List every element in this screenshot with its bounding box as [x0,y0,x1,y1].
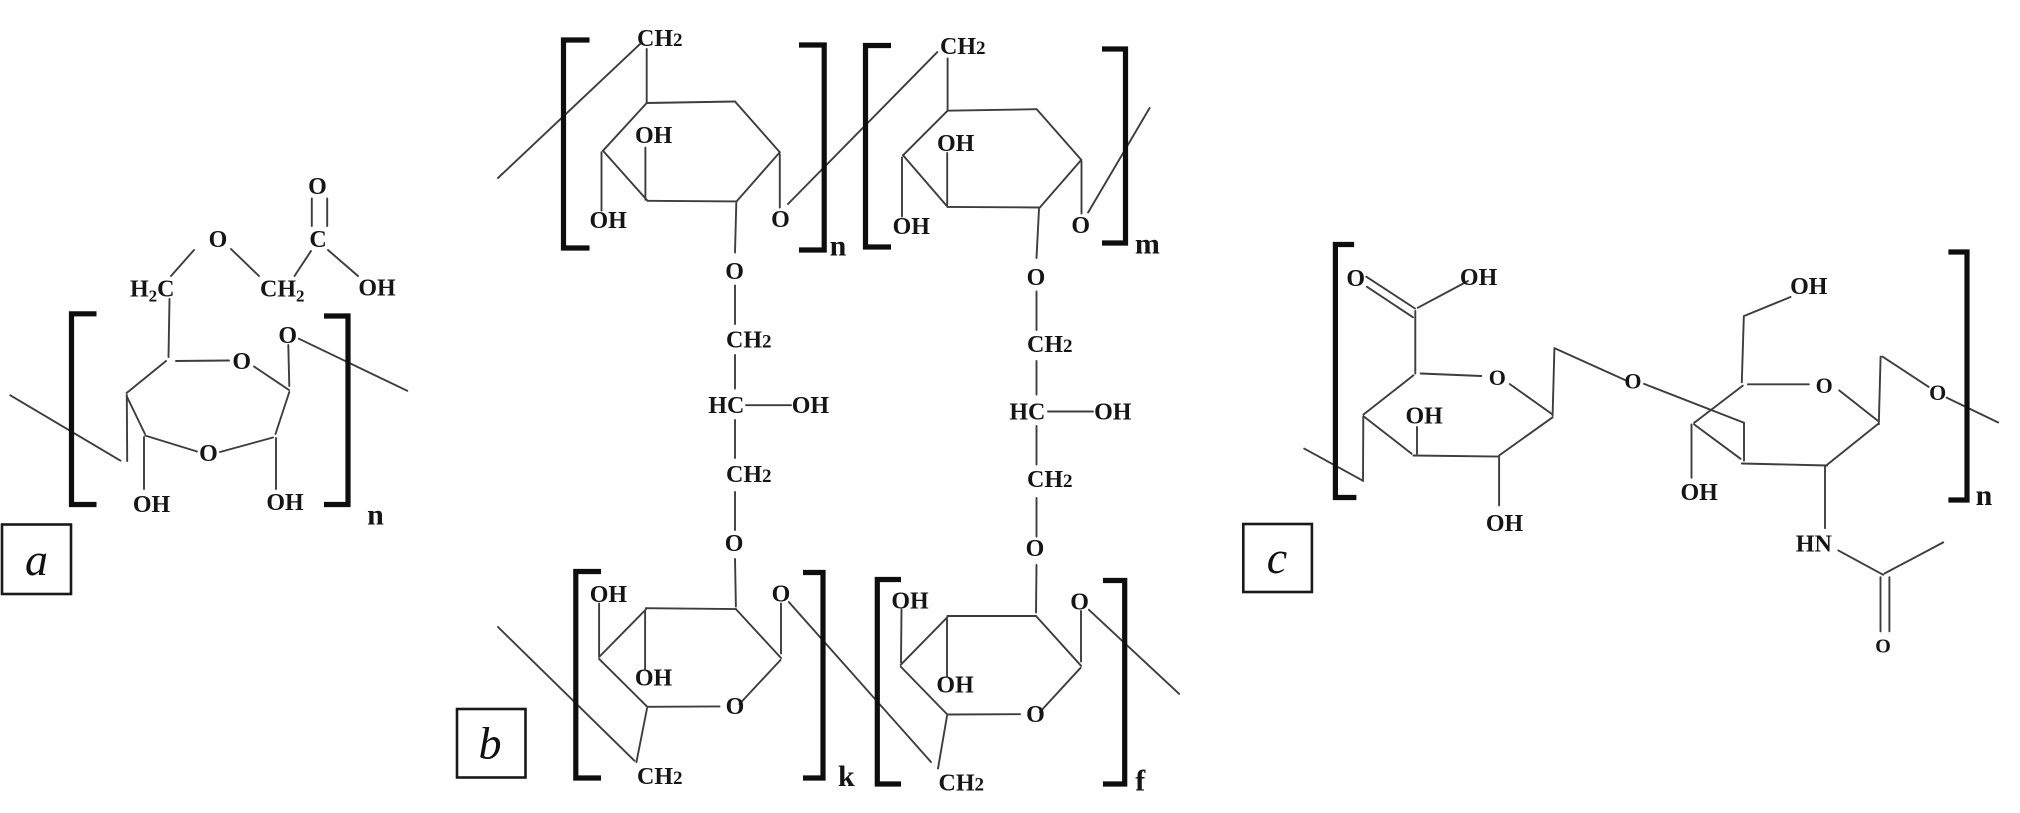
chain tail upper left [498,44,640,178]
bond C1-Oring [1081,162,1083,214]
svg-text:O: O [725,531,744,557]
ring cL edge C4-C5 [1364,375,1414,414]
bracket right f [1103,581,1125,785]
svg-text:k: k [838,760,855,793]
bond O-CH2 [1036,292,1038,331]
svg-text:OH: OH [891,589,929,615]
svg-text:OH: OH [1460,265,1498,291]
bracket left n [564,40,590,248]
svg-text:OH: OH [358,276,396,302]
bond innerOH-C3 [1416,427,1418,454]
bond O glyc-C1 [288,345,289,386]
svg-text:m: m [1135,228,1160,261]
chain tail left c [1304,449,1363,481]
svg-text:O: O [1071,213,1090,239]
svg-text:CH2: CH2 [1027,332,1073,358]
ring a edge C2-Obottom [220,438,273,453]
bond C-CH3 [1885,542,1944,573]
svg-text:O: O [771,207,790,233]
svg-text:n: n [1976,479,1993,512]
bond BL-CH2 [636,709,647,763]
svg-text:CH2: CH2 [637,26,683,52]
svg-text:CH2: CH2 [939,771,985,797]
ring cR edge C5-O [1748,383,1809,385]
svg-text:CH2: CH2 [726,462,772,488]
svg-text:OH: OH [1790,274,1828,300]
chain tail right [299,339,408,391]
ring k edge Oring-BL [647,705,719,707]
bracket right n [799,45,824,250]
svg-text:C: C [309,227,326,253]
glycosidic bond k-f [789,602,931,762]
svg-text:O: O [1875,636,1891,658]
ring n edge TR-C1 [735,102,780,153]
svg-text:HN: HN [1796,532,1833,558]
ring k edge top [646,607,736,610]
chain tail right m [1088,108,1150,213]
ring cR edge O-C1 [1839,390,1878,420]
ring m edge C1-BR [1040,160,1082,208]
bond bend-O right [1882,357,1928,387]
bond OH-C4 [598,604,600,657]
bracket right k [803,573,823,779]
ring k edge C4-TL [599,610,646,658]
bond CH2-HC [734,355,736,389]
bond HC-CH2 [734,420,736,458]
svg-text:n: n [830,230,847,263]
bracket left c [1335,245,1356,498]
bond OH-C4 [900,610,903,663]
ring f edge top [947,615,1036,617]
svg-text:n: n [367,499,384,532]
double bond O=C [1366,277,1415,309]
bond OH-bend [1744,297,1791,316]
svg-text:b: b [479,717,502,768]
ring cL edge bottom C2-C3 [1414,456,1500,457]
bond C1 up [1553,349,1555,416]
svg-text:OH: OH [1486,511,1524,537]
svg-text:O: O [308,174,327,200]
bond C-C5 [1414,311,1416,374]
svg-text:CH2: CH2 [1027,467,1073,493]
bond C4-OH [601,152,603,210]
bond TL-innerOH [946,619,948,677]
svg-text:OH: OH [1681,480,1719,506]
double bond C=O [311,199,313,227]
bond C2-OH [1498,457,1500,505]
bond C4 down [1362,417,1364,482]
svg-text:OH: OH [792,393,830,419]
svg-text:OH: OH [590,208,628,234]
svg-text:O: O [1624,369,1641,394]
svg-text:OH: OH [1406,404,1444,430]
bond C2R-N [1824,466,1826,528]
bond C3-OH [143,437,145,489]
svg-text:c: c [1267,532,1287,583]
bond C-OH [328,250,358,276]
chain tail lower left k [498,627,634,761]
bond CH2-ring [646,49,648,103]
ring cR edge C1-C2 [1827,424,1878,465]
bond H2C-C5 [169,299,170,357]
ring f edge Oring-BL [947,713,1020,715]
ring f edge TR-C1 [1036,616,1081,666]
svg-text:O: O [1816,373,1833,398]
svg-text:OH: OH [893,214,931,240]
bond HC-OH [1048,411,1093,413]
bond CH2-O [1036,498,1038,537]
svg-text:O: O [1489,365,1506,390]
svg-text:O: O [1070,590,1089,616]
svg-text:H2C: H2C [130,277,175,306]
svg-text:O: O [199,441,218,467]
ring f edge BL-C4 [901,667,948,715]
bond C1-Oring [779,154,781,207]
bond CH2-O [734,492,736,530]
svg-text:OH: OH [133,492,171,518]
ring a edge Obottom-C3 [145,436,197,452]
ring m edge TR-C1 [1037,109,1082,160]
bond O-CH2 [231,249,259,276]
ring n edge BL-C4 [603,151,648,201]
ring cL edge C3-C4 [1364,416,1412,453]
bond C-OH [1418,281,1468,308]
ring k edge TR-C1 [736,609,781,658]
svg-text:f: f [1135,765,1146,798]
svg-text:OH: OH [590,582,628,608]
bond HC-CH2 [1036,426,1038,465]
bond ring n-O [735,203,736,253]
bond O-ring k [734,559,737,607]
ring m edge top [948,109,1037,111]
STRUCTURE B : crosslinked glucan [457,26,1179,798]
svg-text:OH: OH [266,490,304,516]
box label c [1243,524,1312,592]
svg-text:O: O [1346,266,1365,292]
bracket left f [877,580,901,785]
svg-text:O: O [232,349,251,375]
bracket left m [866,46,892,248]
svg-text:a: a [25,534,48,585]
ring n edge top [647,102,735,104]
bracket right m [1102,49,1126,243]
bond bend-C5R [1742,317,1744,382]
bond innerOH-BL [946,153,948,205]
ring k edge C1-Oring [740,660,781,704]
ring f edge C1-Oring [1040,668,1081,712]
bond O-CH2 [734,286,736,325]
svg-text:OH: OH [635,666,673,692]
bond CH2-HC [1036,361,1038,395]
ring cL edge O-C1 [1510,384,1553,414]
STRUCTURE C : hyaluronan disaccharide [1243,245,1998,658]
svg-text:CH2: CH2 [726,328,772,354]
STRUCTURE A : carboxymethyl cellulose monomer [2,174,407,594]
bond TL-innerOH [644,611,646,670]
bond CH2-C [295,251,312,276]
box label b [457,709,526,778]
ring a edge C3-C4 [127,396,145,434]
svg-text:O: O [725,259,744,285]
ring cR edge C3-C4 [1694,424,1741,458]
bond Oglyc-C1 [1080,611,1082,662]
bond HC-OH [746,404,791,406]
svg-text:O: O [726,694,745,720]
bond N-C amide [1838,550,1883,574]
bond C4R-OH [1691,424,1693,477]
bracket right a [324,316,348,505]
double bond C=O amide [1880,577,1882,631]
glycosidic bond n-m [788,52,937,204]
bond BL-CH2 [938,716,947,769]
ring n edge bottom [648,200,737,203]
bond bend-Oglyc [1554,348,1625,380]
ring cR edge bottom C2-C3 [1742,464,1827,466]
ring m edge bottom [948,206,1040,209]
svg-text:HC: HC [1009,400,1045,426]
chain tail lower right f [1089,610,1179,694]
bond ring m-O [1037,209,1040,258]
ring cL edge C5-O [1421,374,1482,377]
svg-text:O: O [1929,380,1946,405]
svg-text:OH: OH [635,123,673,149]
bond O-ring f [1035,565,1038,613]
bond C4-OH [901,158,903,217]
ring a edge C1-C2 [276,392,290,434]
ring a edge C4-C5 [127,361,166,393]
svg-text:O: O [1026,536,1045,562]
ring a edge C5-O [176,360,229,363]
svg-text:CH2: CH2 [260,277,305,306]
svg-text:O: O [209,227,228,253]
ring n edge C4-TL [603,103,647,151]
chain tail left [10,395,120,460]
bond innerOH-BL [644,148,646,200]
chain tail right c [1947,398,1999,423]
bond Oglyc-C3R part1 [1644,384,1744,423]
svg-text:OH: OH [936,673,974,699]
svg-text:OH: OH [937,131,975,157]
ring a edge O-C1 [254,367,289,391]
ring k edge BL-C4 [599,659,647,707]
ring cL edge C1-C2 [1499,417,1553,455]
ring n edge C1-BR [737,152,780,201]
bracket right c [1948,252,1967,500]
bond O-H2C [171,250,194,276]
svg-text:CH2: CH2 [637,764,683,790]
ring m edge C4-TL [903,111,948,156]
bracket left a [72,314,97,505]
svg-text:O: O [1027,265,1046,291]
bond C2-OH [275,438,277,489]
bond C4 down [126,395,128,461]
bond Oglyc-C1 [780,604,782,654]
box label a [2,525,71,595]
bond Oglyc-C3R part2 vertical [1743,423,1745,461]
ring f edge C4-TL [901,617,948,665]
bracket left k [576,572,601,779]
bond CH2-ring [947,58,949,110]
svg-text:O: O [1026,702,1045,728]
ring cR edge C4-C5 [1694,386,1743,423]
svg-text:CH2: CH2 [940,34,986,60]
bond C1R up [1879,357,1881,425]
svg-text:HC: HC [708,393,744,419]
svg-text:OH: OH [1094,400,1132,426]
ring m edge BL-C4 [903,155,948,207]
